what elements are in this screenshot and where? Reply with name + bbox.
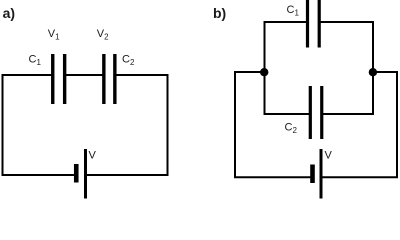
svg-text:C2: C2 — [285, 122, 298, 136]
wire: circuit b outer left vertical — [234, 71, 236, 178]
wire: circuit b inner left vertical — [264, 21, 266, 115]
wire: circuit a top segment right — [115, 74, 169, 76]
wire: circuit b left node horizontal — [234, 71, 265, 73]
wire: circuit b outer right vertical — [396, 71, 398, 178]
wire: circuit a right vertical — [167, 74, 169, 176]
capacitor C2 (circuit b) — [310, 86, 321, 139]
wire: circuit a top segment left — [2, 74, 53, 76]
node: junction dot right — [369, 68, 377, 76]
node: junction dot left — [260, 68, 268, 76]
wire: circuit b right node horizontal — [373, 71, 398, 73]
wire: circuit b inner right vertical — [372, 21, 374, 115]
wire: circuit b top branch left segment — [264, 21, 307, 23]
svg-text:V1: V1 — [48, 28, 60, 42]
wire: circuit b top branch right segment — [320, 21, 374, 23]
svg-text:V2: V2 — [97, 28, 109, 42]
svg-text:C1: C1 — [287, 4, 300, 18]
wire: circuit a left vertical — [2, 74, 4, 176]
svg-text:V: V — [325, 150, 333, 162]
svg-text:b): b) — [213, 5, 226, 21]
battery V (circuit a) — [76, 149, 85, 199]
svg-text:a): a) — [3, 5, 15, 21]
wire: circuit a bottom segment left — [2, 174, 76, 176]
capacitor C2 (circuit a) — [104, 54, 115, 104]
capacitor C1 (circuit a) — [53, 54, 65, 104]
svg-text:C2: C2 — [122, 54, 135, 68]
svg-text:C1: C1 — [29, 54, 42, 68]
svg-text:V: V — [89, 150, 97, 162]
wire: circuit a top segment middle — [64, 74, 103, 76]
wire: circuit b bottom segment left — [234, 176, 311, 178]
wire: circuit a bottom segment right — [86, 174, 169, 176]
wire: circuit b lower branch right segment — [323, 113, 374, 115]
wire: circuit b lower branch left segment — [264, 113, 310, 115]
battery V (circuit b) — [313, 149, 322, 199]
wire: circuit b bottom segment right — [322, 176, 398, 178]
capacitor C1 (circuit b) — [308, 0, 320, 48]
